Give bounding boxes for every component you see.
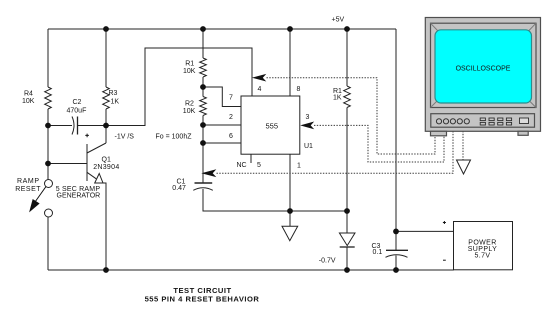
- wire base node to switch: [47, 164, 49, 180]
- wire C2 node to base node: [47, 126, 49, 164]
- wire base lead: [48, 163, 87, 165]
- wire PS plus lead: [396, 230, 454, 232]
- wire pin6 lead: [203, 142, 241, 144]
- node R1/R2 junction: [200, 84, 206, 90]
- node C2 right / R3 bottom: [103, 123, 109, 129]
- svg-text:U1: U1: [304, 143, 313, 150]
- node pin8 top: [287, 26, 293, 32]
- node pin2: [200, 122, 206, 128]
- resistor R1: [200, 58, 207, 77]
- knob 1: [436, 119, 441, 124]
- node R3 top: [103, 26, 109, 32]
- node R1 top: [200, 26, 206, 32]
- IC U1 555 box: [241, 96, 300, 154]
- node C2 left: [45, 123, 51, 129]
- svg-text:Fo = 100hZ: Fo = 100hZ: [156, 134, 193, 141]
- wire R1 to node: [202, 77, 204, 87]
- svg-text:4: 4: [258, 86, 262, 93]
- ground symbol scope probe: [457, 160, 471, 174]
- oscilloscope screen: [435, 30, 532, 103]
- button row2 c1: [480, 122, 485, 125]
- svg-text:10K: 10K: [183, 108, 196, 115]
- wire reset net: node to 555 pin4: [106, 48, 252, 126]
- svg-text:7: 7: [229, 95, 233, 102]
- svg-text:R3: R3: [109, 90, 118, 97]
- wire C3 top lead: [395, 231, 397, 250]
- wire +5V to power supply: [395, 29, 397, 231]
- wire probe pin3 dashed: [314, 125, 444, 162]
- wire R4 bottom to C2 node: [47, 109, 49, 126]
- button row1 c4: [506, 118, 511, 121]
- svg-text:6: 6: [229, 133, 233, 140]
- wire R3 bottom: [105, 109, 107, 126]
- oscilloscope: [425, 18, 540, 136]
- resistor R4: [45, 87, 52, 109]
- wire R1 branch top: [202, 29, 204, 58]
- wire probe pin4 dashed: [267, 78, 436, 154]
- svg-text:-0.7V: -0.7V: [319, 258, 336, 265]
- wire pin2 node to pin6 node: [202, 125, 204, 143]
- svg-text:555: 555: [266, 122, 279, 131]
- oscilloscope foot right: [518, 131, 528, 135]
- svg-text:NC: NC: [237, 162, 247, 169]
- svg-text:2: 2: [229, 114, 233, 121]
- wire emitter down: [103, 183, 106, 270]
- node emitter bottom: [103, 267, 109, 273]
- svg-text:5.7V: 5.7V: [475, 253, 491, 260]
- oscilloscope bevel lines: [431, 23, 439, 31]
- wire diode top lead: [346, 211, 348, 233]
- wire scope ground dashed: [462, 131, 464, 160]
- knob 4: [457, 119, 462, 124]
- node diode bottom: [344, 267, 350, 273]
- svg-text:2N3904: 2N3904: [93, 164, 119, 171]
- probe arrow pin3: [300, 122, 314, 130]
- oscilloscope control panel: [431, 114, 535, 128]
- node C3 bottom: [393, 267, 399, 273]
- probe arrows: [201, 74, 314, 177]
- node R1 1K bottom: [344, 208, 350, 214]
- node R1 1K top: [344, 26, 350, 32]
- wire R2 to pin2 node: [202, 116, 204, 126]
- wire diode bottom lead: [346, 247, 348, 270]
- node pin6: [200, 140, 206, 146]
- probe arrow pin4: [252, 74, 266, 82]
- wire R1 1K branch top: [346, 29, 348, 86]
- svg-text:0.47: 0.47: [172, 185, 186, 192]
- diode D1: [339, 233, 355, 246]
- svg-text:C2: C2: [73, 99, 82, 106]
- knob 2: [443, 119, 448, 124]
- oscilloscope foot left: [431, 131, 447, 136]
- svg-text:1K: 1K: [111, 98, 120, 105]
- wire left rail upper (to R4): [47, 29, 49, 87]
- knob 5: [464, 119, 469, 124]
- svg-text:0.1: 0.1: [373, 249, 383, 256]
- C2 plus mark: [85, 134, 89, 138]
- capacitor C3: [386, 249, 408, 251]
- switch SW1 ramp reset circle A: [45, 180, 53, 188]
- PS plus label: [443, 221, 446, 224]
- button row1 c2: [489, 118, 494, 121]
- svg-text:RESET: RESET: [15, 186, 41, 193]
- wire switch bottom to ground rail: [47, 217, 49, 270]
- svg-text:R1: R1: [185, 61, 194, 68]
- wire C2 left lead: [48, 125, 72, 127]
- wire pin7 lead: [203, 87, 241, 107]
- node PS plus: [393, 229, 399, 235]
- oscilloscope bezel: [431, 23, 537, 107]
- wire probe C1 dashed: [217, 132, 454, 174]
- wire C1 bottom to mid rail: [203, 189, 347, 211]
- svg-text:10K: 10K: [183, 68, 196, 75]
- wire bottom rail: [48, 269, 454, 271]
- svg-text:OSCILLOSCOPE: OSCILLOSCOPE: [456, 65, 511, 72]
- svg-text:1: 1: [297, 163, 301, 170]
- wire pin6 node down to C1: [202, 143, 204, 183]
- svg-text:1K: 1K: [333, 95, 342, 102]
- wire pin8 up: [289, 29, 291, 96]
- svg-text:3: 3: [306, 114, 310, 121]
- wire C2 right lead to node: [78, 125, 107, 127]
- svg-text:555 PIN 4 RESET BEHAVIOR: 555 PIN 4 RESET BEHAVIOR: [145, 295, 260, 304]
- svg-text:GENERATOR: GENERATOR: [57, 193, 101, 200]
- node base junction: [45, 161, 51, 167]
- pin 5 stub: [250, 154, 252, 163]
- resistor R2: [200, 97, 207, 116]
- wire pin2 lead: [203, 124, 241, 126]
- PS minus label: [443, 259, 446, 261]
- power button: [520, 118, 529, 124]
- capacitor C1: [195, 182, 213, 184]
- svg-text:10K: 10K: [22, 98, 35, 105]
- resistor R1 1K: [344, 86, 351, 108]
- probe dashed lines: [217, 78, 464, 174]
- wire collector: [105, 126, 107, 144]
- wire R3 branch top: [105, 29, 107, 87]
- button row1 c3: [498, 118, 503, 121]
- wire R1 1K bottom: [346, 108, 348, 212]
- button row1 c1: [480, 118, 485, 121]
- svg-text:Q1: Q1: [102, 157, 111, 164]
- switch arrow: [30, 187, 46, 212]
- ground stub under pin1: [289, 211, 291, 226]
- svg-text:R2: R2: [185, 101, 194, 108]
- button row2 c3: [498, 122, 503, 125]
- node pin1 ground: [287, 208, 293, 214]
- resistor R3: [103, 87, 110, 109]
- switch SW1 ramp reset circle B: [45, 209, 53, 217]
- wire C3 bottom lead: [395, 256, 397, 271]
- oscilloscope body: [425, 18, 540, 132]
- wire pin1 down: [289, 154, 291, 211]
- probe arrow C1: [201, 169, 216, 177]
- svg-text:5: 5: [257, 162, 261, 169]
- wire node to R2: [202, 87, 204, 97]
- ground symbol under pin1: [282, 226, 298, 241]
- capacitor C2: [72, 117, 74, 135]
- transistor Q1: [86, 144, 88, 181]
- button row2 c4: [506, 122, 511, 125]
- power supply box: [454, 222, 513, 270]
- button row2 c2: [489, 122, 494, 125]
- svg-text:470uF: 470uF: [67, 107, 87, 114]
- svg-text:8: 8: [297, 86, 301, 93]
- svg-text:RAMP: RAMP: [17, 178, 40, 185]
- wire top +5V rail: [48, 28, 396, 30]
- svg-text:+5V: +5V: [332, 17, 345, 24]
- knob 3: [450, 119, 455, 124]
- svg-text:-1V /S: -1V /S: [115, 134, 135, 141]
- svg-text:R4: R4: [24, 91, 33, 98]
